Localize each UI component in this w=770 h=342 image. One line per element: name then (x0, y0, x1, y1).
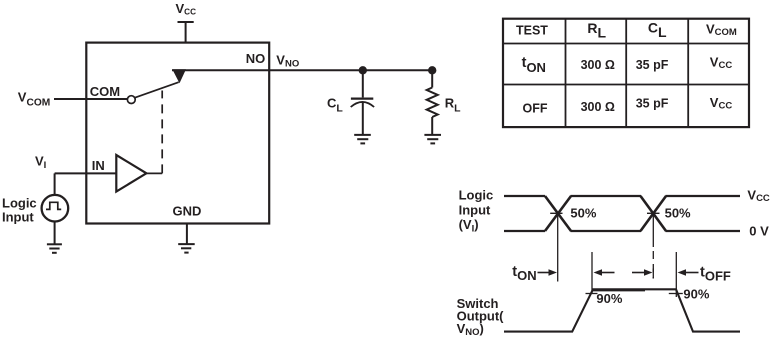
svg-text:NO: NO (246, 51, 265, 66)
svg-text:300 Ω: 300 Ω (581, 58, 615, 72)
svg-text:90%: 90% (596, 291, 622, 306)
svg-text:90%: 90% (683, 287, 709, 302)
svg-text:35 pF: 35 pF (636, 97, 669, 111)
svg-text:GND: GND (173, 203, 202, 218)
svg-text:35 pF: 35 pF (636, 58, 669, 72)
svg-text:Logic: Logic (2, 196, 37, 211)
svg-text:0 V: 0 V (749, 223, 769, 238)
svg-text:300 Ω: 300 Ω (581, 100, 615, 114)
svg-text:IN: IN (92, 158, 105, 173)
svg-text:50%: 50% (665, 206, 691, 221)
svg-text:Input: Input (459, 203, 491, 218)
svg-text:COM: COM (90, 84, 120, 99)
svg-text:Input: Input (2, 210, 34, 225)
svg-text:OFF: OFF (523, 102, 548, 116)
svg-text:50%: 50% (570, 206, 596, 221)
svg-text:TEST: TEST (516, 24, 548, 38)
svg-text:Logic: Logic (459, 187, 494, 202)
svg-text:(VI): (VI) (459, 217, 479, 235)
